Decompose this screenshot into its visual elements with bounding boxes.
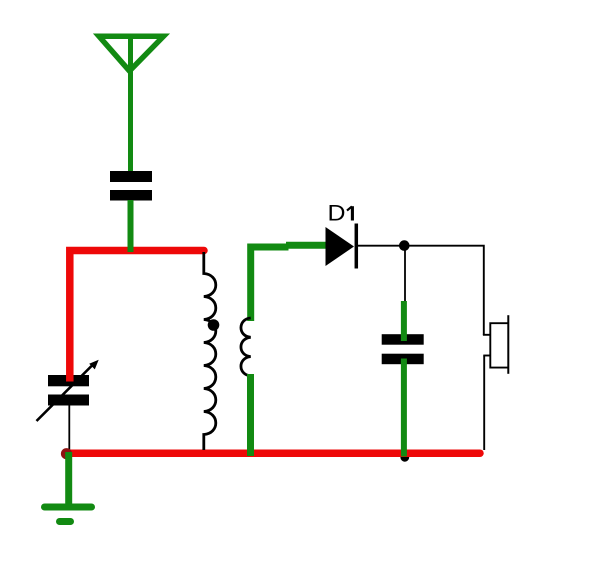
svg-text:D: D [328,201,346,226]
wire red bottom bus [68,449,481,457]
variable capacitor C2 arrow [37,360,99,421]
label D1 [328,201,353,226]
diode D1 [326,224,357,269]
wire red: top bus and left branch [70,251,204,382]
ground [45,452,92,522]
wire green: L2 bottom to bus [247,374,254,456]
wire diode to speaker branch (thin black) [358,246,484,335]
L1 tap dot [208,319,220,331]
node A junction dot (dark red) [61,448,72,459]
wire green: C3 to bottom bus [401,359,407,457]
wire green: L2 top to diode [251,247,289,321]
capacitor C3 plates [382,334,424,364]
earphone LS1 [483,315,508,374]
node B junction dot (black, under bottom bus) [400,453,409,462]
wire node B down (thin black) [404,246,406,303]
inductor L2 secondary coil [241,318,251,376]
inductor L1 primary coil [204,252,216,450]
red wire overlay into C2 top plate [66,375,74,382]
variable capacitor C2 plates [48,375,89,406]
wire LS1 to bottom bus (thin black) [483,356,485,451]
capacitor C1 (antenna coupling) [110,171,152,201]
antenna ANT1 [99,34,164,173]
wire C1 to top bus (green) [128,200,134,252]
wire C2 to ground node (thin black) [68,405,70,452]
node dot at diode output [399,240,410,251]
wire green: node to C3 [401,301,407,341]
